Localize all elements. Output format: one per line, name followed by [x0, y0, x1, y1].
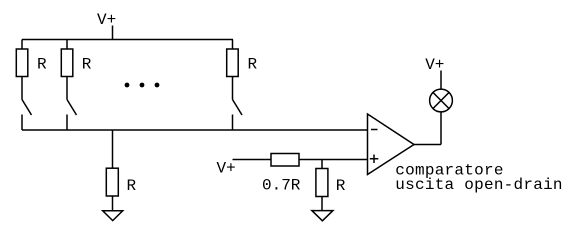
resistor R3	[227, 49, 239, 77]
ground GND2	[312, 211, 333, 221]
wire R4 to ground	[112, 196, 114, 211]
wire lamp to V+	[440, 71, 442, 89]
switch S2 blade	[67, 100, 77, 116]
svg-text:R: R	[37, 56, 47, 74]
switch S3 wire top	[232, 77, 234, 100]
wire node to R4	[112, 130, 114, 169]
switch S1 wire top	[21, 77, 23, 100]
wire V+ top drop	[112, 26, 114, 40]
svg-text:V+: V+	[425, 56, 444, 74]
wire resistor R3 top stub	[232, 40, 234, 50]
lamp DS1 cross	[433, 92, 449, 108]
wire node to R5	[321, 160, 323, 169]
wire comparator output	[414, 144, 441, 146]
svg-text:V+: V+	[217, 160, 236, 178]
switch S3 wire bottom	[232, 115, 234, 131]
wire R6 to comparator plus input	[299, 159, 368, 161]
lamp DS1 circle	[430, 89, 453, 112]
switch S2 wire bottom	[66, 115, 68, 131]
wire resistor R2 top stub	[66, 40, 68, 50]
resistor R1	[16, 49, 28, 77]
svg-text:R: R	[82, 56, 92, 74]
svg-text:R: R	[336, 177, 346, 195]
resistor R4	[106, 168, 118, 196]
op-amp U1 minus pin mark	[371, 129, 378, 131]
resistor R6 0.7R horizontal	[271, 154, 299, 167]
svg-text:V+: V+	[97, 11, 116, 29]
wire output up to lamp	[440, 113, 442, 145]
op-amp U1 plus pin mark	[370, 155, 379, 164]
svg-text:R: R	[127, 177, 137, 195]
resistor R5	[316, 169, 328, 197]
wire top rail	[22, 39, 233, 41]
switch S1 blade	[22, 100, 32, 116]
resistor R2	[61, 49, 73, 77]
svg-text:R: R	[248, 56, 258, 74]
ellipsis dots	[125, 83, 160, 88]
switch S2 wire top	[66, 77, 68, 100]
svg-text:uscita open-drain: uscita open-drain	[395, 176, 562, 194]
switch S1 wire bottom	[21, 115, 23, 131]
wire V+ to R6	[233, 159, 272, 161]
wire R5 to ground	[321, 197, 323, 211]
ground GND1	[103, 211, 123, 221]
svg-text:0.7R: 0.7R	[262, 177, 301, 195]
op-amp U1 comparator triangle	[368, 114, 415, 175]
wire bottom rail to comparator minus input	[22, 129, 368, 131]
wire resistor R1 top stub	[21, 40, 23, 50]
switch S3 blade	[233, 100, 243, 116]
